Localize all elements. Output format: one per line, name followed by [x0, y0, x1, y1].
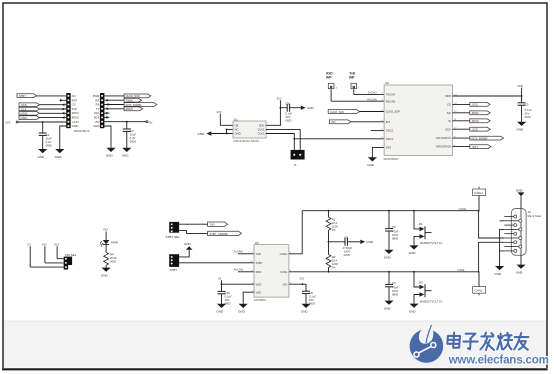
wire CS	[452, 103, 469, 105]
svg-text:MCP25625: MCP25625	[384, 157, 399, 161]
wire sel pin2	[45, 262, 64, 264]
svg-text:INT: INT	[95, 98, 100, 102]
svg-text:3V3: 3V3	[277, 97, 282, 101]
flag TXD0	[124, 98, 142, 102]
svg-text:TxCAN: TxCAN	[368, 91, 377, 95]
node D2 top	[413, 271, 415, 273]
svg-text:STBY: STBY	[256, 261, 263, 265]
svg-text:D2: D2	[419, 280, 423, 284]
svg-text:0805: 0805	[344, 253, 351, 257]
svg-text:SCK: SCK	[21, 107, 27, 111]
IC U3 transceiver	[254, 241, 289, 302]
flag CLKO_SOF right	[124, 94, 151, 98]
ground under R4	[101, 268, 111, 278]
flag CLKO_SOF	[328, 110, 360, 114]
svg-text:GND: GND	[198, 132, 206, 136]
svg-text:3V3: 3V3	[217, 110, 222, 114]
node C7 top	[388, 271, 390, 273]
svg-text:MISO: MISO	[21, 116, 28, 120]
ground under P1	[55, 149, 65, 159]
ground flag above DB9 shell	[516, 188, 525, 208]
svg-text:VDD: VDD	[517, 84, 523, 88]
flag SCK2	[470, 127, 490, 131]
svg-text:GND: GND	[516, 270, 524, 274]
svg-text:1%: 1%	[332, 265, 337, 269]
svg-text:CS: CS	[72, 103, 76, 107]
svg-text:GND: GND	[38, 155, 46, 159]
ground flag right of C8	[360, 240, 374, 245]
svg-text:AN: AN	[72, 94, 76, 98]
connector J2 DE-9	[504, 209, 541, 256]
svg-text:GND: GND	[495, 272, 503, 276]
svg-text:MMBZ27VCLT1G: MMBZ27VCLT1G	[420, 299, 444, 303]
svg-text:+3.3V: +3.3V	[72, 120, 79, 124]
svg-text:SCK: SCK	[72, 107, 78, 111]
flag SCK	[19, 107, 40, 111]
svg-text:DSC2111FI2-F0034: DSC2111FI2-F0034	[234, 139, 260, 143]
svg-text:0603: 0603	[224, 302, 231, 306]
svg-text:GND: GND	[307, 106, 315, 110]
svg-text:ATA6563: ATA6563	[254, 298, 266, 302]
wire LED to R4	[105, 245, 107, 253]
svg-text:INT0_RX0BF: INT0_RX0BF	[472, 136, 488, 140]
svg-text:D1: D1	[419, 222, 423, 226]
node OSC1 junction	[293, 138, 295, 140]
svg-text:INT: INT	[331, 120, 336, 124]
wire SCK	[40, 108, 67, 110]
flag MISO	[470, 111, 490, 115]
wire TxCAN stub	[234, 250, 254, 254]
ground flag left of U1	[198, 131, 212, 136]
flag STBY	[17, 94, 37, 98]
capacitor C7	[385, 272, 399, 301]
wire SI	[452, 120, 469, 122]
wire to flag STBY	[179, 231, 208, 234]
flag STBY_AN	[208, 231, 242, 236]
node VDD junction	[521, 95, 523, 97]
flag INT	[329, 120, 351, 124]
testpoint CANL	[473, 272, 486, 296]
svg-text:0603: 0603	[110, 260, 117, 264]
jumper STBY2	[169, 254, 179, 272]
ground under C9	[301, 304, 311, 314]
wire SO	[452, 112, 469, 114]
svg-text:INT: INT	[386, 120, 391, 124]
header P2 right column	[100, 93, 105, 128]
svg-text:GND: GND	[384, 256, 392, 260]
wire CANH riser	[289, 211, 302, 254]
ground under C6	[384, 250, 394, 260]
ground under C1	[38, 149, 48, 159]
svg-text:INP: INP	[349, 76, 355, 80]
power flag VIO at C9	[299, 277, 305, 286]
svg-text:GND: GND	[55, 155, 63, 159]
svg-text:STBY SEL: STBY SEL	[166, 235, 181, 239]
svg-text:GND: GND	[72, 124, 78, 128]
wire TX to flag	[104, 108, 124, 110]
svg-text:VIO: VIO	[42, 242, 48, 246]
svg-text:RXCAN: RXCAN	[386, 99, 395, 103]
header P2 pin names	[93, 94, 100, 128]
capacitor C2	[123, 122, 137, 148]
pin numbers U3	[251, 252, 292, 292]
watermark title glyphs	[447, 333, 529, 350]
svg-text:TXD0: TXD0	[126, 99, 133, 103]
svg-text:MOSI: MOSI	[72, 116, 79, 120]
wire CANH rail	[302, 207, 478, 211]
wire RST stub	[60, 99, 67, 101]
svg-text:RXD0: RXD0	[126, 107, 134, 111]
ground under VSS	[367, 157, 377, 167]
svg-text:VDD: VDD	[256, 282, 262, 286]
node D1 top	[413, 210, 415, 212]
svg-text:0805: 0805	[130, 139, 137, 143]
svg-text:TXD: TXD	[256, 252, 261, 256]
svg-text:VDD: VDD	[445, 94, 451, 98]
wire STBY to AN	[37, 95, 67, 97]
flag INT1b	[470, 145, 491, 149]
svg-text:GND: GND	[367, 240, 375, 244]
ground under P2	[106, 148, 116, 158]
jumper STBY SEL	[166, 222, 181, 239]
power flag 3V3 at oscillator	[217, 110, 222, 126]
testpoint TxD INP	[349, 72, 360, 95]
svg-text:INP: INP	[326, 76, 332, 80]
LED LD1 PWR	[100, 240, 119, 247]
capacitor C6	[385, 211, 399, 250]
testpoint CANH	[473, 187, 486, 211]
wire CANL rail	[289, 268, 479, 272]
svg-text:U1: U1	[234, 117, 238, 121]
wire RxCAN stub	[234, 268, 254, 272]
svg-text:C3: C3	[285, 101, 289, 105]
wire MISO	[40, 117, 67, 119]
svg-text:CANH: CANH	[459, 207, 467, 211]
jumper VIO SEL	[64, 253, 77, 270]
wire 5V rail	[104, 121, 146, 123]
node C3 junction	[280, 107, 282, 109]
frame bottom thick line	[2, 368, 548, 370]
svg-text:INT1/GPIO1: INT1/GPIO1	[436, 136, 451, 140]
wire CLK1	[266, 129, 300, 150]
wire SCL stub	[104, 112, 109, 114]
svg-text:5V: 5V	[218, 276, 222, 280]
svg-text:CLK0: CLK0	[258, 132, 265, 136]
wire OE	[220, 124, 233, 126]
wire RXCAN	[331, 97, 384, 101]
wire sel pin3	[30, 266, 64, 268]
svg-text:RxCAN: RxCAN	[234, 268, 243, 272]
power flag VDD	[517, 84, 523, 88]
header P1 pin names	[72, 94, 79, 128]
svg-text:GND: GND	[93, 124, 99, 128]
svg-text:CANL: CANL	[475, 289, 483, 293]
svg-text:GND: GND	[184, 242, 192, 246]
svg-text:U3: U3	[255, 241, 259, 245]
wire P2 GND down	[104, 126, 111, 148]
svg-text:CS: CS	[447, 103, 451, 107]
node C6 top	[388, 210, 390, 212]
wire GND row	[211, 133, 233, 135]
header P1 left column	[66, 93, 71, 128]
node C1 junction	[42, 121, 44, 123]
ground bus DB9	[500, 221, 505, 266]
svg-text:INT1: INT1	[472, 145, 478, 149]
svg-text:SDA: SDA	[94, 116, 100, 120]
wire VDD rail right	[452, 88, 521, 96]
svg-text:MISO: MISO	[472, 111, 479, 115]
wire STBY to U3	[179, 262, 254, 264]
svg-text:5V: 5V	[149, 120, 153, 124]
svg-text:GND: GND	[235, 132, 241, 136]
svg-text:VSS: VSS	[386, 146, 392, 150]
wire INT	[351, 121, 384, 123]
svg-text:GND: GND	[301, 310, 309, 314]
svg-text:CLK1: CLK1	[258, 128, 265, 132]
svg-text:INT0_RX0BF: INT0_RX0BF	[126, 103, 142, 107]
wire U3 VIO	[289, 283, 306, 285]
wire OSC2 stub	[371, 130, 385, 132]
svg-text:OE: OE	[235, 123, 239, 127]
svg-text:NC: NC	[235, 128, 239, 132]
power flag 5V at U3	[218, 276, 222, 284]
svg-text:J1: J1	[294, 163, 298, 167]
capacitor C3	[280, 101, 300, 122]
svg-text:MIKROBUS: MIKROBUS	[74, 129, 89, 133]
svg-text:GND: GND	[106, 154, 114, 158]
watermark url text	[448, 353, 549, 366]
node CANH corner	[478, 210, 480, 212]
flag MOSI	[19, 112, 40, 116]
svg-text:CANH: CANH	[474, 191, 483, 195]
arrows near left header	[63, 104, 65, 119]
jumper J1	[291, 150, 305, 167]
node R2 bottom	[328, 271, 330, 273]
svg-text:MOSI: MOSI	[21, 112, 28, 116]
ground under C5	[517, 122, 527, 132]
svg-text:TxCAN: TxCAN	[234, 250, 243, 254]
ground under C2	[122, 148, 132, 158]
node C10 junction	[221, 283, 223, 285]
power flag 5V sel	[27, 242, 31, 267]
capacitor C9	[302, 284, 316, 305]
svg-text:0603: 0603	[285, 119, 292, 123]
svg-text:CANL: CANL	[280, 270, 288, 274]
svg-text:TX: TX	[96, 107, 100, 111]
svg-text:GND: GND	[516, 188, 524, 192]
svg-text:CLKO_SOF: CLKO_SOF	[330, 110, 345, 114]
svg-text:STBY: STBY	[19, 94, 26, 98]
watermark logo circle	[410, 325, 444, 363]
svg-text:RXD: RXD	[256, 270, 262, 274]
wire R1-R2	[328, 230, 330, 254]
wire TXCAN	[354, 91, 384, 95]
watermark strip band	[3, 321, 546, 368]
power flag 3V3 sel	[54, 242, 59, 258]
IC U2 MCP25625	[384, 81, 453, 161]
flag SCS	[470, 103, 490, 107]
svg-text:SO: SO	[447, 111, 451, 115]
wire P1 GND down	[60, 126, 66, 149]
svg-text:SCS: SCS	[21, 103, 27, 107]
ground under D1	[409, 245, 419, 255]
capacitor C8	[329, 235, 361, 256]
svg-text:VIO SEL: VIO SEL	[65, 253, 77, 257]
capacitor C1	[39, 122, 53, 149]
svg-text:RxCAN: RxCAN	[368, 97, 377, 101]
flag INT0_RX0BF2	[470, 136, 504, 140]
svg-text:RST: RST	[72, 98, 78, 102]
wire VSS down	[372, 147, 384, 157]
svg-text:www.elecfans.com: www.elecfans.com	[448, 353, 549, 366]
wire CLK0	[266, 134, 294, 150]
svg-text:MISO: MISO	[72, 111, 79, 115]
ground flag right of C3	[301, 106, 315, 111]
svg-text:0603: 0603	[309, 301, 316, 305]
svg-text:VIO: VIO	[103, 228, 109, 232]
svg-text:GND: GND	[517, 128, 525, 132]
svg-text:VDD: VDD	[259, 123, 265, 127]
svg-text:VIO: VIO	[283, 282, 288, 286]
svg-text:5V0: 5V0	[210, 223, 215, 227]
svg-text:GND: GND	[384, 306, 392, 310]
svg-text:0805: 0805	[46, 143, 53, 147]
svg-text:SCK: SCK	[472, 128, 478, 132]
arrows near right header	[107, 99, 109, 110]
flag MISO	[19, 116, 40, 120]
svg-text:CLKO_SOF: CLKO_SOF	[386, 110, 401, 114]
node R1 top	[328, 210, 330, 212]
capacitor C10	[218, 284, 232, 305]
svg-text:GND: GND	[238, 310, 246, 314]
testpoint RxD INP	[326, 72, 337, 102]
ground flag mid	[179, 242, 192, 257]
flag RXD0	[124, 107, 143, 111]
wire sel pin1	[57, 258, 64, 260]
wire OSC1 long	[294, 138, 384, 140]
svg-text:STBY_AN3080: STBY_AN3080	[210, 232, 229, 236]
svg-text:GND: GND	[101, 273, 109, 277]
wire INT to flag	[104, 99, 124, 101]
svg-text:3V3: 3V3	[54, 242, 59, 246]
wire SDA stub	[104, 116, 109, 118]
svg-text:SCS: SCS	[472, 103, 478, 107]
wire RX to flag	[104, 104, 124, 106]
wire VDD rail	[266, 100, 280, 125]
wire NC tie	[226, 129, 233, 135]
svg-text:STBY: STBY	[170, 268, 178, 272]
svg-text:CANH: CANH	[280, 252, 288, 256]
svg-text:0805: 0805	[392, 237, 399, 241]
svg-text:MMBZ27VCLT1G: MMBZ27VCLT1G	[420, 241, 444, 245]
svg-text:CANL: CANL	[458, 268, 466, 272]
resistor R4	[104, 252, 117, 267]
wire VDD U3	[222, 283, 255, 285]
svg-text:VSS: VSS	[256, 290, 262, 294]
power flag 3V3 above C3	[277, 97, 282, 101]
svg-text:GND: GND	[409, 309, 417, 313]
resistor R1	[326, 211, 338, 232]
svg-text:0603: 0603	[525, 115, 532, 119]
wire VSS U3 down	[243, 292, 254, 304]
ground under DB9 shell	[516, 255, 526, 274]
svg-text:INT0/GPIO0: INT0/GPIO0	[436, 145, 451, 149]
ground under C7	[384, 301, 394, 311]
svg-text:OSC1: OSC1	[386, 137, 394, 141]
power flag 5V right	[146, 120, 153, 124]
wire CANH to DB9	[479, 211, 505, 238]
power flag VIO sel	[42, 242, 48, 263]
svg-text:U2: U2	[385, 81, 389, 85]
pin numbers U2 left	[382, 93, 384, 148]
wire to flag 5V0	[179, 223, 208, 225]
svg-text:GND: GND	[122, 154, 130, 158]
svg-text:OSC2: OSC2	[386, 129, 394, 133]
svg-text:GND: GND	[367, 163, 375, 167]
svg-text:PWM: PWM	[93, 94, 100, 98]
diode D2 MMBZ27VCLT1G	[414, 272, 443, 304]
svg-text:C7: C7	[392, 281, 396, 285]
power flag 3V3 left	[6, 121, 19, 125]
svg-text:TXCAN: TXCAN	[386, 93, 395, 97]
svg-text:RX: RX	[96, 103, 100, 107]
flag SCS	[19, 103, 40, 107]
svg-text:SCK: SCK	[445, 127, 451, 131]
power flag VIO at LED	[103, 228, 109, 240]
svg-text:C5: C5	[525, 103, 529, 107]
resistor R2	[326, 255, 338, 272]
wire 3V3 rail	[18, 121, 66, 123]
flag 5V0	[208, 222, 228, 227]
svg-text:5V: 5V	[27, 242, 31, 246]
svg-text:1%: 1%	[332, 228, 337, 232]
svg-text:0805: 0805	[392, 292, 399, 296]
ground under D2	[409, 304, 419, 314]
svg-text:CLKO_SOF: CLKO_SOF	[126, 94, 141, 98]
wire CLKO_SOF	[360, 111, 384, 113]
wire SCK	[452, 128, 469, 130]
node CANL corner	[478, 271, 480, 273]
svg-text:VIO: VIO	[299, 277, 305, 281]
wire SCS	[40, 104, 67, 106]
svg-text:C8: C8	[344, 235, 348, 239]
svg-text:GND: GND	[409, 251, 417, 255]
wire PWM to flag	[104, 95, 124, 97]
node C2 junction	[126, 121, 128, 123]
svg-text:GND: GND	[216, 310, 224, 314]
svg-text:DE-9 Male: DE-9 Male	[528, 214, 542, 218]
diode D1 MMBZ27VCLT1G	[414, 211, 443, 246]
node C8 junction	[328, 241, 330, 243]
ground under U3 VSS	[238, 304, 248, 314]
capacitor C5	[518, 96, 532, 122]
svg-text:SCL: SCL	[94, 111, 100, 115]
pin numbers U2 right	[454, 94, 457, 147]
wire CANL to DB9	[479, 242, 505, 271]
wire INT0	[452, 146, 469, 148]
flag MOSI	[470, 119, 490, 123]
svg-text:C6: C6	[392, 225, 396, 229]
oscillator U1	[233, 117, 266, 143]
ground under C10	[216, 304, 226, 314]
wire INT1	[452, 137, 469, 139]
svg-text:SI: SI	[448, 119, 451, 123]
wire MOSI	[40, 112, 67, 114]
svg-text:3V3: 3V3	[6, 121, 11, 125]
flag INT0_RX0BF	[124, 103, 157, 107]
svg-text:PWR: PWR	[111, 240, 119, 244]
ground under DB9 bus	[495, 266, 505, 276]
